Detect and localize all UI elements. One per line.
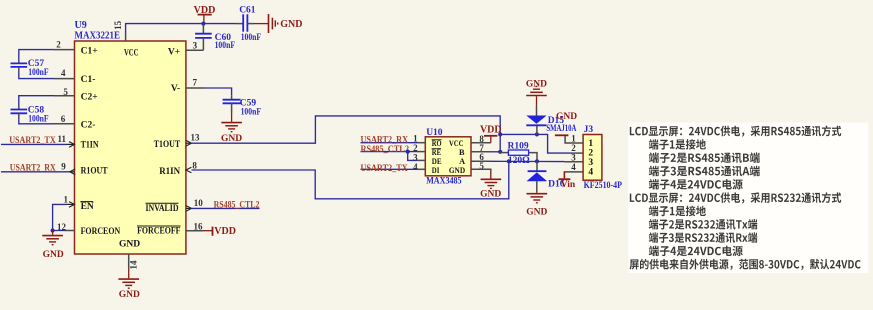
svg-text:Vin: Vin	[561, 180, 576, 190]
svg-text:100nF: 100nF	[215, 41, 236, 51]
capacitor C61	[237, 5, 262, 43]
wire node to J3 pin2	[500, 134, 571, 153]
svg-text:11: 11	[58, 134, 67, 144]
svg-text:RS485_CTL2: RS485_CTL2	[361, 145, 410, 155]
ground C59	[221, 113, 242, 144]
svg-text:8: 8	[192, 161, 197, 171]
svg-text:SMAJ10A: SMAJ10A	[546, 124, 576, 134]
pin lead 15	[125, 34, 127, 42]
wire A line	[490, 160, 564, 162]
svg-text:GND: GND	[119, 240, 140, 250]
pin lead J3.4	[564, 172, 583, 178]
svg-text:RO: RO	[432, 139, 442, 148]
svg-text:DE: DE	[432, 157, 442, 166]
svg-text:VCC: VCC	[449, 139, 464, 148]
junction FORCEON	[51, 228, 55, 232]
svg-text:VDD: VDD	[194, 5, 216, 16]
wire EN to FORCEON junction	[53, 204, 67, 230]
svg-text:1: 1	[588, 139, 593, 149]
pin R1OUT arrow	[70, 169, 76, 175]
svg-text:GND: GND	[221, 134, 242, 144]
svg-text:GND: GND	[43, 250, 64, 260]
note background panel	[628, 123, 868, 274]
wire V- to C59	[205, 88, 232, 96]
wire VCC to VDD node	[126, 24, 237, 34]
svg-text:FORCEOFF: FORCEOFF	[137, 227, 181, 237]
pin INVALID arrow	[186, 207, 190, 209]
svg-text:10: 10	[194, 198, 204, 208]
pin lead C1-	[54, 78, 75, 80]
wire B line	[490, 151, 500, 153]
svg-text:INVALID: INVALID	[146, 204, 179, 214]
connector J3 body	[583, 135, 602, 181]
capacitor C60	[195, 24, 235, 51]
svg-text:2: 2	[571, 143, 576, 153]
pin lead J3.3	[564, 161, 583, 163]
svg-text:100nF: 100nF	[241, 107, 262, 117]
junction B-R109	[498, 150, 502, 154]
J3 pin numbers	[571, 134, 576, 173]
pin lead V-	[186, 87, 205, 89]
svg-text:100nF: 100nF	[241, 33, 262, 43]
svg-text:C2+: C2+	[81, 92, 98, 102]
note text (Chinese annotations)	[630, 126, 861, 270]
wire USART2_TX	[1, 143, 67, 145]
pin lead GND U10	[471, 169, 491, 172]
wire C2+ to C58	[19, 96, 54, 106]
svg-text:V+: V+	[168, 48, 180, 58]
junction A-R1IN	[507, 159, 511, 163]
junction VDD node	[201, 22, 205, 26]
U10 designator	[426, 128, 462, 186]
pin T1OUT arrow	[186, 142, 190, 144]
pin lead C2-	[54, 123, 75, 125]
svg-text:GND: GND	[526, 80, 547, 90]
pin T1IN arrow	[67, 143, 75, 145]
svg-text:4: 4	[413, 162, 418, 172]
wire RS485_CTL2 to RE	[361, 151, 418, 153]
svg-text:6: 6	[61, 114, 66, 124]
svg-text:C1-: C1-	[81, 75, 96, 85]
svg-text:RS485_CTL2: RS485_CTL2	[214, 200, 260, 210]
svg-text:R109: R109	[508, 142, 529, 152]
ground C61 (sideways)	[254, 14, 302, 33]
svg-text:1: 1	[64, 194, 69, 204]
wire USART2_RX	[1, 171, 70, 173]
svg-text:A: A	[459, 157, 465, 166]
svg-text:3: 3	[588, 158, 593, 168]
svg-text:GND: GND	[526, 207, 547, 217]
pin lead J3.2	[571, 152, 583, 154]
pin lead RO	[417, 142, 425, 144]
pin lead VCC U10	[471, 142, 491, 144]
wire C57 to C1-	[19, 72, 54, 79]
power VDD U10	[480, 125, 502, 143]
wire RE to DE	[408, 152, 417, 161]
ground pin12	[42, 231, 64, 261]
wire C58 to C2-	[19, 118, 54, 124]
U9 pin names	[80, 47, 180, 250]
pin lead C2+	[54, 95, 75, 97]
svg-text:MAX3485: MAX3485	[426, 176, 462, 186]
svg-text:VDD: VDD	[214, 226, 236, 237]
pin R1IN arrow	[186, 167, 192, 173]
pin lead V+	[186, 49, 204, 51]
svg-text:4: 4	[61, 68, 66, 78]
svg-text:15: 15	[113, 20, 123, 30]
diode D16	[527, 161, 565, 191]
svg-text:9: 9	[61, 161, 66, 171]
pin lead FORCEOFF	[186, 230, 203, 232]
wire RS485_CTL2 stub	[192, 207, 260, 209]
J3 designator	[584, 125, 623, 191]
svg-text:GND: GND	[556, 112, 577, 122]
pin lead J3.1	[565, 136, 583, 143]
svg-text:T1IN: T1IN	[81, 140, 99, 150]
svg-text:100nF: 100nF	[28, 115, 49, 125]
capacitor C57	[11, 59, 49, 78]
pin lead DI	[417, 168, 425, 170]
wire R1IN route	[191, 161, 508, 199]
U9 pin numbers	[56, 20, 203, 269]
svg-text:USART2_TX: USART2_TX	[9, 136, 56, 146]
svg-text:RE: RE	[432, 148, 442, 157]
svg-text:VCC: VCC	[124, 48, 139, 58]
svg-text:GND: GND	[480, 190, 501, 200]
junction A-D16	[535, 159, 539, 163]
svg-text:U10: U10	[426, 128, 443, 138]
svg-text:V-: V-	[171, 84, 180, 94]
ground pin14	[118, 269, 140, 300]
svg-text:T1OUT: T1OUT	[154, 140, 181, 150]
power Vin J3.4 (bar)	[558, 172, 575, 190]
svg-text:3: 3	[571, 153, 576, 163]
op-amp U10 body	[425, 137, 471, 176]
svg-text:4: 4	[571, 162, 576, 172]
power GND J3.1 (bar)	[555, 112, 577, 135]
junction T1OUT/B node	[498, 132, 502, 136]
wire USART2_RX to RO	[361, 142, 418, 144]
U9 designator	[75, 20, 121, 41]
svg-text:B: B	[459, 148, 465, 157]
pin lead FORCEON	[65, 230, 75, 232]
pin lead C1+	[54, 49, 75, 51]
wire USART2_TX to DI	[361, 168, 418, 170]
svg-text:2: 2	[56, 39, 61, 49]
ground D15 (inverted)	[526, 80, 547, 106]
svg-text:2: 2	[588, 148, 593, 158]
svg-text:GND: GND	[280, 19, 302, 30]
pin lead 14	[128, 254, 130, 269]
svg-text:GND: GND	[449, 166, 465, 175]
svg-text:GND: GND	[119, 290, 140, 300]
wire T1OUT route	[192, 116, 501, 143]
J3 inside numbers	[588, 139, 593, 178]
svg-text:C2-: C2-	[81, 120, 96, 130]
junction D15 tap	[535, 132, 539, 136]
svg-text:USART2_RX: USART2_RX	[10, 164, 56, 174]
svg-text:4: 4	[588, 167, 593, 177]
power VDD top	[194, 5, 216, 24]
svg-text:100nF: 100nF	[28, 68, 49, 78]
svg-text:C61: C61	[239, 5, 256, 15]
svg-text:1: 1	[571, 134, 576, 144]
pin EN arrow	[67, 203, 75, 205]
diode D15	[526, 106, 576, 134]
svg-text:J3: J3	[584, 125, 594, 135]
pin lead DE	[417, 159, 425, 161]
op-amp U9 body	[75, 41, 186, 254]
svg-text:KF2510-4P: KF2510-4P	[584, 181, 623, 191]
svg-text:C1+: C1+	[81, 47, 98, 57]
junction RS485_CTL2	[406, 150, 410, 154]
svg-text:USART2_TX: USART2_TX	[361, 164, 408, 174]
svg-text:DI: DI	[432, 166, 440, 175]
svg-text:R1OUT: R1OUT	[81, 167, 109, 177]
pin lead RE	[417, 151, 425, 153]
wire C1+ to C57	[19, 50, 54, 60]
U10 pin numbers	[413, 134, 484, 172]
resistor R109	[500, 142, 537, 167]
svg-text:MAX3221E: MAX3221E	[75, 30, 121, 41]
ground D16	[526, 192, 547, 218]
pin lead A	[471, 160, 490, 162]
U10 pin names	[432, 139, 466, 175]
svg-text:3: 3	[193, 40, 198, 50]
capacitor C59	[223, 96, 262, 118]
wire B up to T1OUT node	[499, 134, 501, 151]
svg-text:FORCEON: FORCEON	[81, 227, 121, 237]
svg-text:R1IN: R1IN	[159, 167, 180, 177]
capacitor C58	[11, 105, 49, 124]
pin lead B	[471, 151, 490, 153]
svg-text:13: 13	[191, 132, 201, 142]
svg-text:7: 7	[192, 77, 197, 87]
ground U10	[480, 172, 501, 200]
power VDD pin16 (bar style)	[203, 226, 236, 237]
svg-text:EN: EN	[81, 202, 94, 212]
svg-text:14: 14	[129, 260, 139, 270]
